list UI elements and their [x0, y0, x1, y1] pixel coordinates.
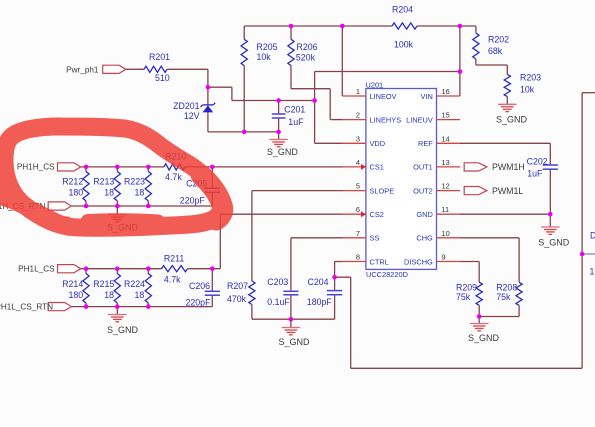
svg-text:U201: U201 [366, 80, 384, 89]
svg-text:1uF: 1uF [527, 168, 543, 178]
svg-text:PH1L_CS_RTN: PH1L_CS_RTN [0, 303, 53, 312]
svg-text:PH1L_CS: PH1L_CS [18, 264, 55, 273]
svg-text:CTRL: CTRL [370, 257, 389, 266]
svg-text:R203: R203 [520, 73, 541, 83]
svg-text:R212: R212 [62, 177, 83, 187]
svg-text:0.1uF: 0.1uF [267, 297, 290, 307]
svg-text:9: 9 [442, 253, 446, 262]
svg-text:VIN: VIN [420, 92, 432, 101]
svg-text:R215: R215 [93, 279, 114, 289]
svg-text:100k: 100k [394, 40, 414, 50]
svg-text:14: 14 [442, 134, 450, 143]
svg-text:520k: 520k [296, 52, 316, 62]
svg-text:S_GND: S_GND [278, 337, 310, 347]
svg-text:R209: R209 [456, 282, 477, 292]
svg-text:11: 11 [442, 205, 450, 214]
svg-text:1: 1 [590, 267, 595, 277]
svg-text:S_GND: S_GND [107, 325, 139, 335]
svg-text:180: 180 [69, 290, 84, 300]
svg-text:R205: R205 [257, 42, 278, 52]
svg-text:R214: R214 [62, 279, 83, 289]
svg-text:LINEHYS: LINEHYS [370, 115, 402, 124]
svg-text:C204: C204 [308, 277, 329, 287]
svg-text:1uF: 1uF [288, 117, 304, 127]
svg-text:R204: R204 [392, 4, 413, 14]
svg-text:12V: 12V [184, 111, 200, 121]
svg-text:18: 18 [104, 188, 114, 198]
svg-text:75k: 75k [496, 292, 511, 302]
svg-text:PWM1H: PWM1H [492, 162, 525, 172]
svg-text:18: 18 [104, 290, 114, 300]
svg-text:220pF: 220pF [186, 297, 212, 307]
svg-text:13: 13 [442, 158, 450, 167]
svg-text:R224: R224 [124, 279, 145, 289]
svg-text:R208: R208 [496, 282, 517, 292]
svg-text:LINEUV: LINEUV [406, 115, 433, 124]
svg-text:4.7k: 4.7k [164, 275, 181, 285]
svg-text:180: 180 [69, 188, 84, 198]
svg-text:R201: R201 [149, 52, 170, 62]
svg-text:LINEOV: LINEOV [370, 92, 397, 101]
svg-text:4.7k: 4.7k [165, 172, 182, 182]
svg-text:UCC28220D: UCC28220D [366, 270, 408, 279]
svg-text:D: D [590, 231, 595, 241]
svg-text:C203: C203 [267, 277, 288, 287]
svg-text:6: 6 [356, 205, 360, 214]
svg-text:18: 18 [135, 290, 145, 300]
svg-text:DISCHG: DISCHG [404, 257, 433, 266]
svg-text:5: 5 [356, 182, 360, 191]
svg-text:VDD: VDD [370, 139, 386, 148]
svg-text:S_GND: S_GND [538, 237, 570, 247]
svg-text:SS: SS [370, 234, 380, 243]
svg-text:220pF: 220pF [180, 195, 206, 205]
svg-text:OUT1: OUT1 [413, 163, 433, 172]
svg-text:PH1H_CS: PH1H_CS [17, 163, 55, 172]
svg-text:7: 7 [356, 229, 360, 238]
svg-text:8: 8 [356, 253, 360, 262]
svg-text:CHG: CHG [416, 234, 433, 243]
svg-text:470k: 470k [227, 294, 247, 304]
svg-text:10k: 10k [520, 85, 535, 95]
svg-text:180pF: 180pF [307, 297, 333, 307]
svg-text:GND: GND [416, 210, 432, 219]
svg-text:R213: R213 [93, 177, 114, 187]
svg-text:SLOPE: SLOPE [370, 186, 395, 195]
svg-text:C201: C201 [284, 104, 305, 114]
svg-text:PWM1L: PWM1L [492, 186, 523, 196]
svg-text:Pwr_ph1: Pwr_ph1 [66, 65, 99, 74]
svg-text:R202: R202 [488, 35, 509, 45]
svg-text:R206: R206 [297, 42, 318, 52]
svg-text:R207: R207 [227, 281, 248, 291]
svg-text:10k: 10k [257, 52, 272, 62]
svg-text:12: 12 [442, 182, 450, 191]
svg-text:S_GND: S_GND [468, 333, 500, 343]
svg-text:C202: C202 [527, 156, 548, 166]
svg-text:510: 510 [155, 73, 170, 83]
svg-text:18: 18 [135, 188, 145, 198]
svg-text:10: 10 [442, 229, 450, 238]
svg-text:CS2: CS2 [370, 210, 384, 219]
svg-text:1: 1 [356, 87, 360, 96]
svg-text:2: 2 [356, 111, 360, 120]
svg-text:S_GND: S_GND [496, 114, 528, 124]
svg-text:R223: R223 [124, 177, 145, 187]
svg-text:15: 15 [442, 111, 450, 120]
svg-text:75k: 75k [456, 292, 471, 302]
svg-text:3: 3 [356, 134, 360, 143]
svg-text:S_GND: S_GND [267, 147, 299, 157]
svg-text:CS1: CS1 [370, 163, 384, 172]
svg-text:16: 16 [442, 87, 450, 96]
svg-text:4: 4 [356, 158, 360, 167]
svg-text:ZD201: ZD201 [173, 101, 200, 111]
svg-text:OUT2: OUT2 [413, 186, 433, 195]
svg-text:68k: 68k [488, 46, 503, 56]
svg-text:C206: C206 [189, 281, 210, 291]
svg-text:R211: R211 [164, 254, 184, 264]
svg-text:REF: REF [418, 139, 433, 148]
